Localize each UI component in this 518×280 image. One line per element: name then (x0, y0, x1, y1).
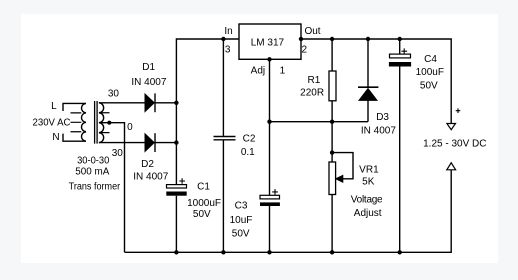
wire: C1 negative to ground rail (175, 196, 177, 253)
wire: secondary bottom tap to D2 anode (99, 142, 145, 144)
svg-text:1.25 - 30V DC: 1.25 - 30V DC (423, 138, 486, 149)
svg-text:Trans former: Trans former (69, 182, 121, 193)
transformer T1 primary winding (81, 103, 86, 141)
wire: C2 top (222, 39, 224, 136)
wire: VR1 wiper loop (332, 153, 353, 179)
svg-text:230V AC: 230V AC (33, 118, 71, 129)
svg-text:VR1: VR1 (359, 164, 379, 175)
wire: D1 cathode to +V node (155, 102, 176, 104)
arrow: VR1 wiper arrowhead (336, 175, 343, 182)
wire: R1 top (331, 39, 333, 71)
junction dot R1 bottom (330, 120, 334, 124)
junction dot C4 top (398, 37, 402, 41)
diode D3 (358, 87, 378, 100)
svg-text:10uF: 10uF (230, 215, 253, 226)
svg-text:0: 0 (127, 122, 133, 133)
svg-text:C3: C3 (235, 201, 248, 212)
diode D2 (145, 133, 155, 152)
transformer T1 primary winding ticks (71, 113, 82, 132)
pin dot Adj pin 1 (267, 57, 271, 61)
junction dot D2 (174, 140, 178, 144)
potentiometer VR1 body (329, 162, 336, 195)
svg-text:Adj: Adj (251, 66, 265, 77)
capacitor C2 (214, 137, 236, 140)
wire: ground bottom rail (125, 170, 452, 253)
diode D1 (145, 93, 155, 112)
svg-text:1000uF: 1000uF (187, 198, 221, 209)
svg-text:30: 30 (108, 89, 120, 100)
pin dot Out pin 2 (299, 37, 303, 41)
svg-text:Adjust: Adjust (354, 208, 382, 219)
svg-text:50V: 50V (232, 228, 250, 239)
wire: C2 bottom to ground rail (222, 141, 224, 253)
junction dot R1 top (330, 37, 334, 41)
junction dot Adj/C3 (267, 120, 271, 124)
wire: D3 top (367, 39, 369, 87)
junction dot C3 ground (267, 250, 271, 254)
svg-text:Voltage: Voltage (351, 195, 383, 206)
svg-text:30-0-30: 30-0-30 (77, 156, 110, 167)
svg-text:D2: D2 (141, 159, 154, 170)
svg-text:500 mA: 500 mA (75, 167, 109, 178)
transformer T1 primary N terminal stub (63, 134, 86, 142)
svg-text:L: L (51, 101, 57, 112)
resistor R1 (329, 71, 336, 101)
svg-text:C4: C4 (424, 54, 437, 65)
svg-text:50V: 50V (193, 209, 211, 220)
transformer T1 primary L terminal stub (63, 103, 86, 111)
wire: rectifier output vertical (D1/D2 junction down to C1) (176, 39, 239, 185)
terminal arrow: negative output (447, 163, 456, 170)
svg-text:D3: D3 (376, 112, 389, 123)
svg-text:100uF: 100uF (416, 67, 444, 78)
junction dot VR1 ground (330, 250, 334, 254)
svg-text:50V: 50V (420, 80, 438, 91)
svg-text:LM 317: LM 317 (251, 37, 285, 48)
wire: D2 cathode to +V node (155, 142, 176, 144)
transformer T1 secondary winding (99, 103, 104, 143)
terminal arrow: positive output (447, 124, 456, 130)
wire: Adj horizontal line to D3 anode (270, 121, 369, 123)
regulator U1 LM317 (239, 24, 301, 59)
svg-text:3: 3 (225, 45, 231, 56)
svg-text:0.1: 0.1 (241, 147, 255, 158)
junction dot In / C2 (221, 37, 225, 41)
wire: secondary top tap to D1 anode (99, 102, 145, 104)
svg-text:R1: R1 (308, 75, 321, 86)
wire: VR1 top from Adj line (331, 122, 333, 162)
wire: D3 anode down to Adj line (367, 100, 369, 121)
junction dot D3 top (366, 37, 370, 41)
junction dot D1 (174, 101, 178, 105)
junction dot center tap (107, 121, 111, 125)
plus sign output polarity (456, 108, 461, 113)
svg-text:30: 30 (112, 148, 124, 159)
junction dot VR1 wiper tee (330, 150, 334, 154)
svg-text:N: N (52, 132, 59, 143)
junction dot C4 ground (398, 250, 402, 254)
capacitor C3 electrolytic (260, 189, 280, 206)
capacitor C1 electrolytic (166, 178, 186, 196)
svg-text:IN 4007: IN 4007 (361, 126, 396, 137)
junction dot C2 ground (221, 250, 225, 254)
junction dot C1 ground (174, 250, 178, 254)
svg-text:2: 2 (302, 45, 308, 56)
wire: R1 bottom (331, 101, 333, 122)
wire: C4 bottom to ground rail (399, 67, 401, 253)
wire: LM317 Out rail to output and positive drop (301, 39, 451, 123)
svg-text:5K: 5K (362, 177, 375, 188)
svg-text:In: In (224, 26, 232, 37)
transformer T1 secondary winding ticks (100, 113, 110, 133)
capacitor C4 electrolytic (389, 48, 411, 66)
svg-text:1: 1 (280, 66, 286, 77)
svg-text:D1: D1 (142, 62, 155, 73)
wire: C4 top (399, 39, 401, 54)
svg-text:220R: 220R (300, 88, 324, 99)
wire: secondary center tap to ground rail (100, 123, 125, 253)
wire: Adj pin down (269, 59, 271, 121)
svg-text:C1: C1 (197, 181, 210, 192)
svg-text:C2: C2 (243, 134, 256, 145)
svg-text:Out: Out (304, 26, 320, 37)
transformer T1 core (95, 101, 98, 144)
svg-text:IN 4007: IN 4007 (133, 172, 168, 183)
wire: VR1 bottom to ground rail (331, 195, 333, 253)
wire: C3 top (269, 122, 271, 196)
svg-text:IN 4007: IN 4007 (131, 77, 166, 88)
wire: C3 bottom to ground rail (269, 206, 271, 252)
